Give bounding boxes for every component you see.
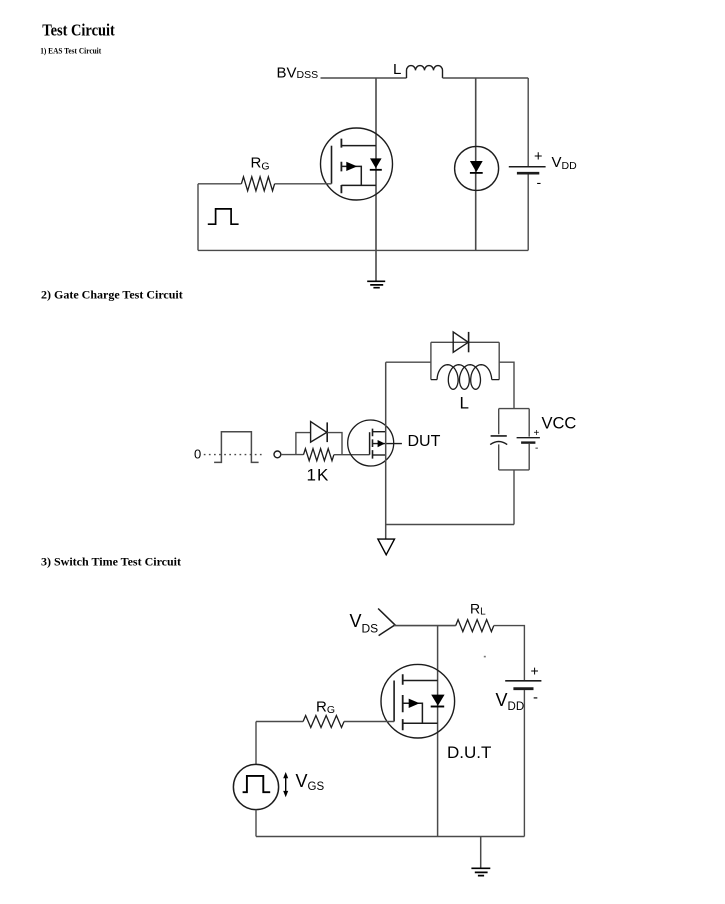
diode D1 circle [455,146,499,190]
MOSFET3 circle [381,664,455,738]
svg-text:1) EAS Test Circuit: 1) EAS Test Circuit [40,45,101,55]
wire gate left [198,183,332,185]
MOSFET3 body arrow [403,703,423,723]
MOSFET Q1 circle [321,128,393,200]
svg-text:+: + [534,149,542,165]
inductor L2 [437,365,492,390]
svg-text:-: - [537,174,542,190]
MOSFET Q1 channel [340,139,342,194]
wire diode box right [327,433,342,455]
wire RL to battery [494,626,525,681]
wire bottom rail 3 [256,836,524,838]
pulse input symbol [208,209,239,224]
MOSFET2 source lead [373,454,386,456]
wire VCC bottom drop [513,470,515,525]
battery VDD [509,166,546,168]
resistor RL [456,620,494,632]
wire LC box right [498,342,500,379]
MOSFET DUT circle [348,420,394,466]
MOSFET3 body diode [431,695,444,706]
wire gate3 [256,721,394,723]
wire left drop [197,184,199,251]
ground arrow [378,539,395,555]
resistor RG [241,177,274,191]
wire bottom rail 2 [386,524,514,526]
wire VCC box top [499,408,530,410]
resistor 1K [304,449,334,461]
wire top rail left [321,77,407,79]
diode D3 [453,332,468,352]
svg-text:0: 0 [194,447,201,462]
updown arrow [285,776,287,793]
pulse waveform [214,432,259,463]
svg-text:+: + [534,428,540,439]
wire input [281,454,304,456]
MOSFET3 channel [402,674,404,730]
MOSFET Q1 source lead [341,184,376,186]
MOSFET Q1 drain lead [341,145,376,147]
MOSFET2 drain lead [373,431,386,433]
MOSFET3 source lead [403,722,438,724]
svg-text:-: - [535,443,538,454]
MOSFET3 drain lead [403,680,438,682]
wire LC box left [430,342,432,379]
wire gen bottom [255,810,257,837]
probe arrow [378,609,395,636]
dotted zero line [204,454,262,456]
MOSFET2 gate bar [369,432,371,455]
wire bottom rail [198,249,528,251]
MOSFET Q1 gate bar [331,146,333,184]
wire battery top [527,78,529,166]
input terminal [274,451,281,458]
inductor L2 stubs [431,379,499,381]
diode D2 [311,422,327,443]
wire diode box left [296,433,311,455]
wire to VCC [499,362,514,408]
wire VCC box bottom [499,469,530,471]
ground 3 [471,868,490,875]
wire ground stem 3 [480,837,482,869]
stray mark [484,656,486,658]
MOSFET3 gate bar [393,681,395,722]
wire top rail 2 [386,361,431,363]
svg-text:+: + [531,663,539,679]
wire drain vertical 2 [385,362,387,539]
wire diode3 top [431,341,499,343]
svg-text:3) Switch Time Test Circuit: 3) Switch Time Test Circuit [41,554,181,568]
svg-text:L: L [393,61,401,78]
wire gen top [255,722,257,765]
wire ground stem [375,250,377,281]
diode D1 [470,161,483,172]
pulse generator circle [233,764,278,809]
svg-text:L: L [460,394,469,413]
wire drain vertical 3 [437,626,439,837]
MOSFET2 channel [372,429,374,459]
battery VDD3 [505,680,541,682]
svg-text:Test Circuit: Test Circuit [42,21,115,40]
battery VCC [528,409,530,437]
svg-text:VCC: VCC [542,415,577,433]
MOSFET Q1 body arrow [341,166,361,185]
MOSFET Q1 body diode [370,158,382,168]
MOSFET2 body lead arrow [373,443,402,445]
ground [367,281,385,287]
svg-text:DUT: DUT [408,433,441,450]
wire diode branch vertical [475,78,477,250]
wire gate2 [334,454,370,456]
inductor L1 [407,66,443,78]
wire drain vertical [375,78,377,250]
wire top rail 3 [394,625,456,627]
wire top rail right [443,77,529,79]
resistor RG3 [303,716,344,728]
svg-text:D.U.T: D.U.T [447,743,491,762]
svg-text:1K: 1K [307,465,330,484]
pulse symbol 3 [243,776,271,792]
svg-text:-: - [533,689,538,706]
svg-text:2) Gate Charge Test Circuit: 2) Gate Charge Test Circuit [41,287,183,301]
capacitor C1 [498,409,500,435]
